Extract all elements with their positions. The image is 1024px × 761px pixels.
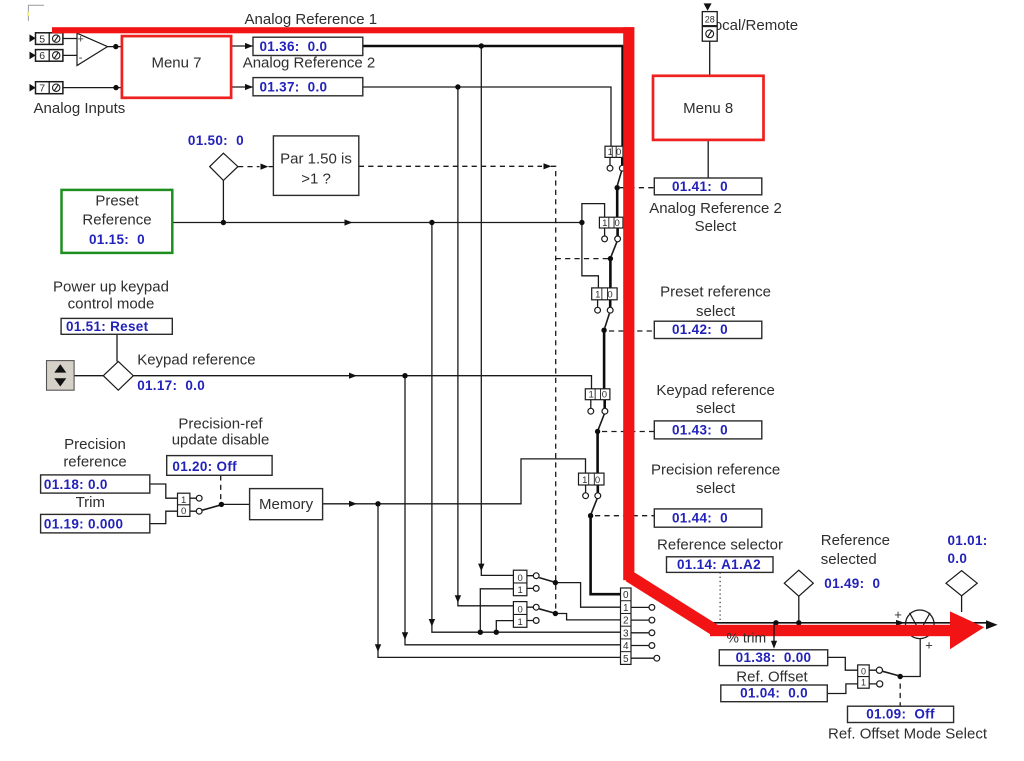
- svg-text:Reference: Reference: [821, 532, 890, 549]
- svg-text:selected: selected: [821, 551, 877, 568]
- svg-text:select: select: [696, 303, 736, 320]
- svg-text:Precision reference: Precision reference: [651, 461, 780, 478]
- svg-text:0: 0: [623, 590, 629, 601]
- svg-text:1: 1: [518, 585, 523, 596]
- svg-text:01.49: 0: 01.49: 0: [824, 576, 880, 591]
- svg-text:01.37: 0.0: 01.37: 0.0: [260, 79, 328, 94]
- svg-text:1: 1: [608, 147, 613, 158]
- svg-text:1: 1: [518, 617, 523, 628]
- svg-text:01.18: 0.0: 01.18: 0.0: [44, 477, 108, 492]
- svg-text:01.41: 0: 01.41: 0: [672, 179, 728, 194]
- svg-text:1: 1: [589, 390, 594, 401]
- svg-text:Trim: Trim: [76, 494, 105, 511]
- svg-text:1: 1: [582, 475, 587, 486]
- svg-text:reference: reference: [63, 454, 126, 471]
- svg-text:Analog Reference 1: Analog Reference 1: [245, 11, 378, 28]
- svg-text:0: 0: [181, 506, 186, 517]
- svg-text:Par 1.50 is: Par 1.50 is: [280, 151, 352, 168]
- svg-text:0: 0: [615, 218, 620, 229]
- svg-text:+: +: [925, 638, 933, 653]
- svg-text:0: 0: [518, 573, 523, 584]
- svg-text:0: 0: [616, 147, 621, 158]
- svg-text:0: 0: [595, 475, 600, 486]
- svg-text:+: +: [894, 607, 902, 622]
- svg-text:0: 0: [607, 290, 612, 301]
- svg-text:>1 ?: >1 ?: [301, 171, 331, 188]
- svg-text:0: 0: [518, 604, 523, 615]
- svg-text:01.09: Off: 01.09: Off: [866, 706, 935, 721]
- svg-text:Keypad reference: Keypad reference: [137, 351, 255, 368]
- svg-text:1: 1: [623, 603, 629, 614]
- svg-text:01.43: 0: 01.43: 0: [672, 422, 728, 437]
- svg-text:Reference selector: Reference selector: [657, 536, 783, 553]
- svg-text:01.04: 0.0: 01.04: 0.0: [740, 686, 808, 701]
- svg-text:0: 0: [861, 667, 866, 677]
- svg-text:select: select: [696, 400, 736, 417]
- svg-text:Analog Reference 2: Analog Reference 2: [649, 200, 782, 217]
- svg-text:5: 5: [623, 654, 629, 665]
- svg-text:update disable: update disable: [172, 431, 270, 448]
- svg-text:01.50: 0: 01.50: 0: [188, 133, 244, 148]
- svg-text:Memory: Memory: [259, 496, 314, 513]
- svg-text:Menu 7: Menu 7: [151, 54, 201, 71]
- svg-text:1: 1: [861, 678, 866, 688]
- svg-text:01.20: Off: 01.20: Off: [172, 459, 237, 474]
- svg-text:01.14: A1.A2: 01.14: A1.A2: [677, 557, 761, 572]
- svg-text:01.44: 0: 01.44: 0: [672, 511, 728, 526]
- svg-text:Local/Remote: Local/Remote: [706, 17, 799, 34]
- svg-text:28: 28: [705, 15, 715, 25]
- svg-text:1: 1: [595, 290, 600, 301]
- svg-text:6: 6: [39, 50, 45, 62]
- svg-text:1: 1: [181, 495, 186, 506]
- svg-text:0.0: 0.0: [948, 551, 968, 566]
- svg-text:01.17: 0.0: 01.17: 0.0: [137, 378, 205, 393]
- svg-text:01.38: 0.00: 01.38: 0.00: [736, 650, 812, 665]
- svg-text:% trim: % trim: [727, 629, 767, 645]
- svg-text:3: 3: [623, 628, 629, 639]
- svg-text:Preset reference: Preset reference: [660, 284, 771, 301]
- svg-text:5: 5: [39, 33, 45, 45]
- svg-text:01.15: 0: 01.15: 0: [89, 232, 145, 247]
- svg-text:0: 0: [602, 390, 607, 401]
- svg-text:-: -: [79, 52, 83, 64]
- svg-text:01.51: Reset: 01.51: Reset: [66, 319, 149, 334]
- svg-text:Menu 8: Menu 8: [683, 100, 733, 117]
- svg-text:+: +: [78, 34, 84, 46]
- svg-text:01.19: 0.000: 01.19: 0.000: [44, 517, 123, 532]
- svg-text:2: 2: [623, 616, 629, 627]
- svg-text:Preset: Preset: [95, 193, 139, 210]
- svg-text:4: 4: [623, 641, 629, 652]
- svg-text:Precision-ref: Precision-ref: [178, 416, 263, 433]
- svg-text:select: select: [696, 480, 736, 497]
- svg-text:Power up keypad: Power up keypad: [53, 278, 169, 295]
- svg-text:control mode: control mode: [68, 296, 155, 313]
- svg-text:Keypad reference: Keypad reference: [656, 382, 774, 399]
- svg-text:01.42: 0: 01.42: 0: [672, 322, 728, 337]
- svg-text:Ref. Offset Mode Select: Ref. Offset Mode Select: [828, 725, 988, 742]
- svg-text:01.36: 0.0: 01.36: 0.0: [260, 39, 328, 54]
- svg-text:Ref. Offset: Ref. Offset: [736, 668, 808, 685]
- svg-text:01.01:: 01.01:: [948, 533, 988, 548]
- svg-text:Analog Inputs: Analog Inputs: [34, 100, 126, 117]
- svg-text:Reference: Reference: [82, 212, 151, 229]
- svg-text:Analog Reference 2: Analog Reference 2: [243, 54, 376, 71]
- svg-text:7: 7: [39, 82, 45, 94]
- svg-text:Select: Select: [695, 218, 738, 235]
- svg-text:Precision: Precision: [64, 436, 126, 453]
- svg-text:1: 1: [602, 218, 607, 229]
